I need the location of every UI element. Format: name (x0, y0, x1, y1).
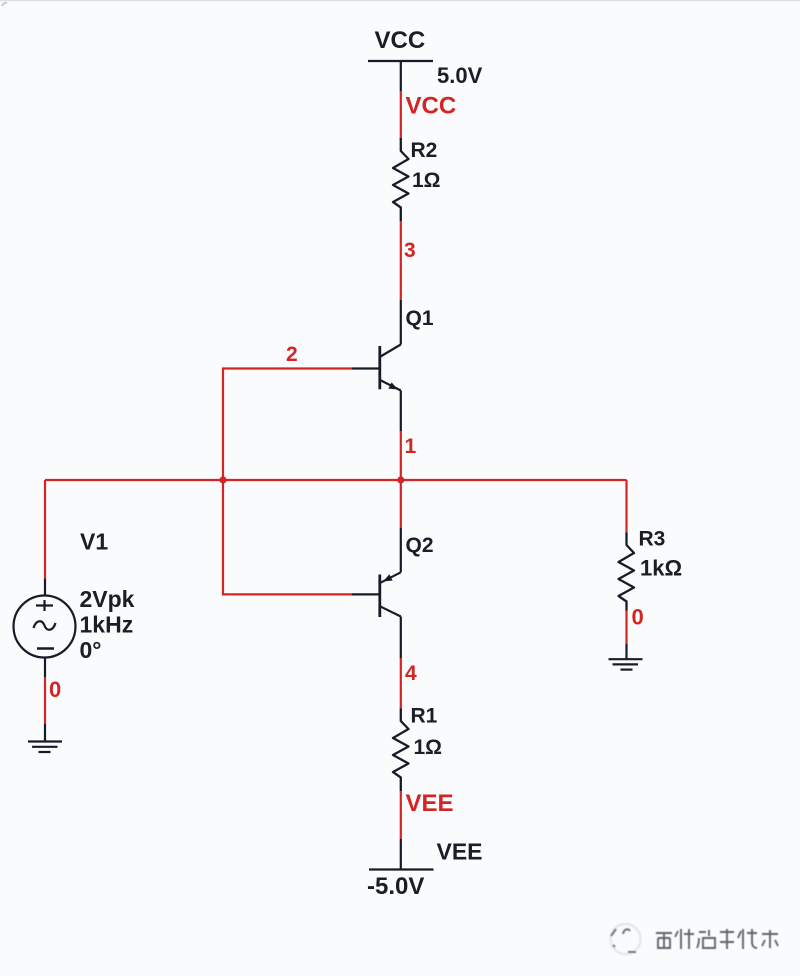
junction (node 1 / output) (397, 476, 404, 483)
resistor R3 (619, 532, 635, 610)
wire net VEE (red) (400, 791, 402, 839)
label R3 (639, 528, 666, 551)
wire node 2 rail (223, 369, 352, 595)
label 2Vpk (80, 586, 135, 612)
label 1Ω (R1 value) (414, 736, 443, 759)
svg-text:5.0V: 5.0V (437, 63, 483, 88)
label V1 (80, 529, 108, 555)
watermark text 硬件设计技术 (drawn strokes) (656, 929, 778, 949)
svg-text:0°: 0° (80, 637, 102, 663)
transistor Q1 (NPN) (352, 300, 401, 431)
svg-text:2: 2 (286, 343, 298, 366)
wire V1 to ground (net 0) (44, 677, 46, 724)
net label VEE (red) (406, 790, 454, 817)
svg-text:1kΩ: 1kΩ (640, 556, 682, 581)
label 5.0V (437, 63, 483, 88)
svg-text:0: 0 (632, 605, 644, 630)
svg-text:VCC: VCC (375, 27, 426, 54)
node label 4 (405, 662, 417, 685)
label R1 (411, 705, 438, 728)
svg-text:VEE: VEE (437, 839, 483, 865)
label -5.0V (367, 873, 424, 900)
label 1kHz (80, 611, 134, 637)
power symbol VCC (368, 61, 433, 91)
svg-text:1Ω: 1Ω (414, 736, 443, 759)
svg-text:3: 3 (404, 239, 416, 262)
wire node 1 (output net) (45, 431, 627, 579)
svg-text:2Vpk: 2Vpk (80, 586, 135, 612)
label R2 (411, 139, 438, 162)
node label 3 (404, 239, 416, 262)
wire R3 to ground (net 0) (625, 611, 627, 644)
wire node 3 (400, 221, 402, 300)
corner smudge (2, 3, 7, 6)
node label 1 (405, 435, 417, 458)
label VEE (power name) (437, 839, 483, 865)
ground (R3) (609, 644, 643, 670)
node label 0 (right) (632, 605, 644, 630)
svg-text:R1: R1 (411, 705, 438, 728)
watermark logo (611, 924, 641, 954)
resistor R1 (393, 709, 409, 792)
label Q2 (406, 534, 434, 557)
svg-text:1Ω: 1Ω (412, 169, 441, 192)
power symbol VEE (369, 839, 434, 870)
svg-text:VCC: VCC (406, 93, 457, 120)
label 1Ω (R2 value) (412, 169, 441, 192)
svg-text:4: 4 (405, 662, 417, 685)
node label 2 (286, 343, 298, 366)
source V1 (AC) (14, 579, 76, 677)
wire net VCC (red) (400, 91, 402, 139)
ground (V1) (28, 724, 62, 752)
resistor R2 (393, 138, 409, 221)
wire node 4 (400, 658, 402, 709)
top edge line (0, 0, 800, 1)
label 0 deg (80, 637, 102, 663)
svg-text:0: 0 (49, 677, 61, 702)
svg-text:1: 1 (405, 435, 417, 458)
net label VCC (red) (406, 93, 457, 120)
svg-text:R2: R2 (411, 139, 438, 162)
node label 0 (left) (49, 677, 61, 702)
label 1kΩ (R3 value) (640, 556, 682, 581)
svg-text:1kHz: 1kHz (80, 611, 134, 637)
label VCC (power name) (375, 27, 426, 54)
svg-text:Q1: Q1 (406, 307, 434, 330)
svg-text:VEE: VEE (406, 790, 454, 817)
svg-text:Q2: Q2 (406, 534, 434, 557)
svg-text:R3: R3 (639, 528, 666, 551)
svg-text:V1: V1 (80, 529, 108, 555)
junction (node 2 / input) (219, 476, 226, 483)
svg-text:-5.0V: -5.0V (367, 873, 424, 900)
transistor Q2 (PNP) (352, 528, 401, 658)
label Q1 (406, 307, 434, 330)
